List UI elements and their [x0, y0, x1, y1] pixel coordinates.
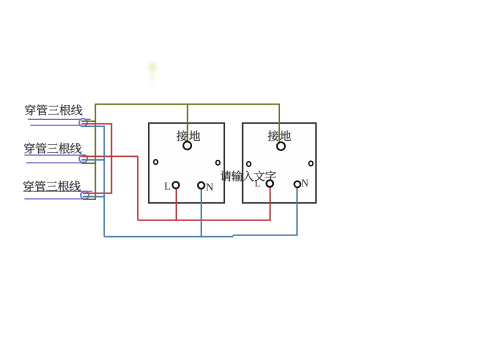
wire: ground stub pipe1	[82, 120, 97, 122]
conduit pipe 1 top line	[28, 118, 91, 120]
wire: ground stub pipe3	[83, 198, 96, 200]
mounting hole X2 right	[309, 161, 313, 166]
conduit pipe 3 end ellipse	[81, 191, 89, 199]
wire: ground drop to X1 terminal	[187, 104, 189, 141]
label: pipe3 穿管三根线	[23, 181, 34, 192]
label: X1 接地	[177, 130, 188, 141]
mounting hole X1 left	[154, 160, 158, 165]
terminal: X2 L	[266, 180, 273, 187]
wire: ground trunk vertical	[94, 104, 96, 200]
conduit pipe 2 top line	[24, 154, 85, 156]
wire: neutral stub pipe2	[82, 159, 105, 161]
wire: neutral stub pipe1	[82, 125, 105, 127]
terminal: X2 N	[294, 181, 300, 187]
wire: live bottom bus	[138, 219, 271, 221]
conduit pipe 1 bottom line	[30, 124, 86, 126]
wire: live stub pipe2	[82, 155, 139, 157]
wire: ground drop to X2 terminal	[278, 104, 280, 142]
label: X2 接地	[268, 130, 279, 141]
svg-text:L: L	[255, 178, 260, 188]
mounting hole X2 left	[247, 162, 251, 167]
wire: live into pipe3	[83, 192, 112, 194]
mounting hole X1 right	[216, 160, 220, 165]
wire: neutral bottom bus left	[104, 236, 233, 238]
wire: neutral branch to X1 N	[200, 189, 202, 237]
wire: live trunk pipe1-pipe3 vertical	[111, 124, 113, 193]
terminal: X1 ground	[183, 142, 191, 150]
terminal: X2 ground	[277, 142, 285, 150]
conduit pipe 1 end ellipse	[79, 119, 87, 127]
conduit pipe 2 end ellipse	[79, 155, 87, 163]
svg-text:N: N	[301, 178, 308, 189]
terminal: X1 N	[198, 182, 205, 189]
label: pipe2 穿管三根线	[24, 143, 35, 154]
wire: live stub pipe1	[82, 123, 113, 125]
conduit pipe 2 bottom line	[26, 162, 81, 164]
faint cursor smudge	[0, 0, 1, 1]
wire: ground bus top horizontal	[95, 103, 279, 105]
wire: neutral bus jog	[232, 235, 234, 236]
wire: live branch to X1 L	[175, 188, 177, 220]
wire: neutral riser to X2 N	[296, 188, 298, 236]
socket box X2	[243, 123, 316, 203]
conduit pipe 3 bottom line	[24, 198, 87, 200]
wire: neutral trunk vertical	[103, 126, 105, 236]
label: pipe1 穿管三根线	[25, 104, 36, 115]
socket box X1	[149, 123, 225, 203]
svg-text:N: N	[206, 181, 214, 193]
terminal: X1 L	[173, 182, 180, 189]
wire: ground stub pipe2	[82, 162, 97, 164]
svg-text:L: L	[164, 182, 170, 193]
conduit pipe 3 top line	[24, 190, 93, 192]
label: 请输入文字	[220, 171, 231, 182]
wire: neutral stub pipe3	[83, 196, 105, 198]
wire: live riser to X2 L	[269, 187, 271, 221]
wire: neutral bottom bus right	[233, 234, 297, 236]
wire: live feed vertical	[137, 156, 139, 220]
